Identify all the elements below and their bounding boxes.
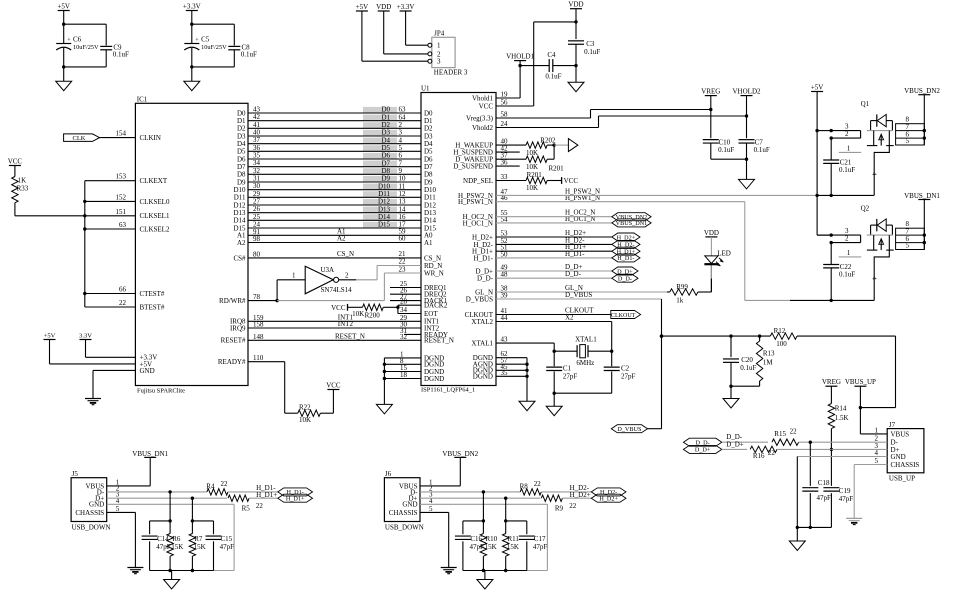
svg-text:22: 22 [790, 427, 798, 435]
svg-text:+5V: +5V [44, 333, 56, 340]
svg-text:C15: C15 [221, 535, 233, 543]
svg-text:CLKSEL0: CLKSEL0 [140, 198, 170, 206]
svg-text:10K: 10K [526, 149, 538, 157]
svg-text:47pF: 47pF [220, 543, 235, 551]
svg-text:R10: R10 [486, 535, 498, 543]
svg-text:0.1uF: 0.1uF [113, 51, 129, 59]
svg-text:XTAL2: XTAL2 [471, 318, 493, 326]
svg-text:XTAL1: XTAL1 [575, 335, 597, 343]
svg-text:DGND: DGND [424, 375, 444, 383]
svg-text:Vhold1: Vhold1 [472, 94, 494, 102]
svg-text:5: 5 [875, 457, 879, 465]
svg-text:152: 152 [116, 193, 127, 201]
svg-text:H_D1+: H_D1+ [256, 491, 277, 499]
svg-text:60: 60 [399, 235, 407, 243]
svg-text:X2: X2 [565, 314, 574, 322]
svg-text:1.5K: 1.5K [835, 414, 849, 422]
svg-text:19: 19 [501, 91, 509, 99]
svg-text:U1: U1 [421, 84, 430, 92]
svg-text:RD/WR#: RD/WR# [219, 297, 246, 305]
svg-text:CS_N: CS_N [337, 250, 354, 258]
svg-text:D_VBUS: D_VBUS [466, 295, 493, 303]
svg-text:GND: GND [140, 367, 155, 375]
svg-text:48: 48 [501, 271, 509, 279]
svg-text:VDD: VDD [568, 1, 583, 9]
svg-text:RESET_N: RESET_N [335, 332, 365, 340]
svg-text:98: 98 [253, 235, 261, 243]
svg-text:66: 66 [119, 286, 127, 294]
svg-text:1: 1 [847, 144, 851, 152]
svg-text:CLKEXT: CLKEXT [140, 177, 168, 185]
svg-text:VCC: VCC [326, 382, 341, 390]
svg-text:43: 43 [501, 336, 509, 344]
svg-text:22: 22 [768, 449, 776, 457]
svg-text:VDD: VDD [704, 229, 719, 237]
svg-text:D15: D15 [378, 221, 391, 229]
svg-text:D_VBUS: D_VBUS [617, 426, 642, 433]
svg-text:SN74LS14: SN74LS14 [321, 286, 353, 294]
svg-text:H_D2+: H_D2+ [570, 491, 591, 499]
svg-text:153: 153 [116, 173, 127, 181]
svg-text:C16: C16 [470, 535, 482, 543]
svg-text:R200: R200 [365, 311, 381, 319]
svg-text:80: 80 [253, 250, 261, 258]
svg-text:C18: C18 [818, 479, 830, 487]
svg-text:10uF/25V: 10uF/25V [73, 44, 99, 51]
svg-text:39: 39 [501, 292, 509, 300]
svg-text:Vreg(3.3): Vreg(3.3) [466, 114, 494, 122]
svg-text:+3.3V: +3.3V [183, 3, 201, 11]
svg-text:R202: R202 [540, 136, 556, 144]
svg-text:H_D1-: H_D1- [565, 250, 585, 258]
svg-text:3.3V: 3.3V [79, 333, 92, 340]
svg-text:Vhold2: Vhold2 [472, 124, 494, 132]
svg-text:C22: C22 [840, 263, 852, 271]
svg-text:BTEST#: BTEST# [140, 303, 165, 311]
svg-text:1K: 1K [18, 177, 27, 185]
svg-text:47pF: 47pF [839, 495, 854, 503]
svg-text:HEADER 3: HEADER 3 [434, 69, 468, 77]
svg-text:18: 18 [400, 371, 408, 379]
svg-text:DGND: DGND [473, 373, 493, 381]
svg-text:CHASSIS: CHASSIS [389, 509, 418, 517]
svg-text:D_D-: D_D- [477, 275, 494, 283]
svg-text:10K: 10K [299, 416, 311, 424]
svg-text:10K: 10K [526, 184, 538, 192]
svg-text:VHOLD1: VHOLD1 [506, 53, 534, 61]
svg-text:A1: A1 [424, 239, 433, 247]
svg-text:44: 44 [501, 314, 509, 322]
svg-text:R15: R15 [774, 430, 786, 438]
svg-text:5: 5 [906, 137, 910, 145]
svg-text:VCC: VCC [331, 304, 346, 312]
svg-text:CLK: CLK [73, 135, 86, 142]
svg-text:22: 22 [534, 480, 542, 488]
svg-text:Q1: Q1 [861, 100, 870, 108]
svg-text:27pF: 27pF [621, 372, 636, 380]
svg-text:34: 34 [400, 306, 408, 314]
svg-text:15K: 15K [507, 543, 519, 551]
svg-text:58: 58 [501, 111, 509, 119]
svg-text:A2: A2 [337, 235, 346, 243]
svg-text:0.1uF: 0.1uF [241, 51, 257, 59]
svg-text:R201: R201 [527, 171, 543, 179]
svg-text:22: 22 [221, 480, 229, 488]
svg-text:NDP_SEL: NDP_SEL [463, 177, 493, 185]
svg-text:H_D1-: H_D1- [474, 254, 494, 262]
svg-text:1: 1 [847, 249, 851, 257]
svg-text:78: 78 [253, 293, 261, 301]
svg-text:1: 1 [875, 426, 879, 434]
svg-text:24: 24 [501, 120, 509, 128]
svg-text:D_VBUS: D_VBUS [565, 291, 592, 299]
svg-text:33: 33 [501, 173, 509, 181]
svg-text:28: 28 [400, 298, 408, 306]
svg-text:C2: C2 [621, 364, 630, 372]
svg-text:0.1uF: 0.1uF [740, 364, 756, 372]
svg-text:CTEST#: CTEST# [140, 290, 165, 298]
svg-text:10K: 10K [526, 163, 538, 171]
svg-text:47pF: 47pF [533, 543, 548, 551]
svg-text:R9: R9 [555, 505, 564, 513]
svg-text:CLKIN: CLKIN [140, 134, 161, 142]
svg-text:0.1uF: 0.1uF [545, 73, 561, 81]
svg-text:C21: C21 [840, 158, 852, 166]
svg-text:47pF: 47pF [156, 543, 171, 551]
svg-text:C20: C20 [741, 356, 753, 364]
svg-text:WR_N: WR_N [424, 269, 444, 277]
svg-text:J5: J5 [72, 470, 79, 478]
svg-text:C5: C5 [201, 36, 210, 44]
svg-text:VBUS: VBUS [891, 430, 910, 438]
svg-text:+5V: +5V [811, 84, 824, 92]
svg-text:D_SUSPEND: D_SUSPEND [453, 163, 493, 171]
svg-text:Q2: Q2 [861, 205, 870, 213]
svg-text:ISP1161_LQFP64_1: ISP1161_LQFP64_1 [421, 387, 475, 394]
svg-text:148: 148 [253, 333, 264, 341]
svg-text:10uF/25V: 10uF/25V [201, 44, 227, 51]
svg-text:VCC: VCC [564, 177, 579, 185]
svg-text:22: 22 [119, 299, 127, 307]
svg-text:0.1uF: 0.1uF [754, 146, 770, 154]
svg-text:VBUS_DN1: VBUS_DN1 [904, 192, 940, 200]
svg-text:R16: R16 [753, 452, 765, 460]
svg-text:1: 1 [292, 272, 296, 280]
svg-text:USB_DOWN: USB_DOWN [385, 524, 424, 532]
svg-text:GND: GND [402, 501, 417, 509]
svg-text:R201: R201 [549, 165, 565, 173]
svg-text:JP4: JP4 [434, 29, 445, 37]
svg-text:22: 22 [256, 502, 264, 510]
svg-text:22: 22 [569, 502, 577, 510]
svg-text:C19: C19 [839, 487, 851, 495]
svg-text:+3.3V: +3.3V [397, 3, 415, 11]
svg-text:R4: R4 [206, 482, 215, 490]
svg-text:5: 5 [906, 242, 910, 250]
svg-text:C6: C6 [73, 36, 82, 44]
svg-text:4: 4 [875, 449, 879, 457]
svg-text:VBUS_DN1: VBUS_DN1 [616, 220, 648, 227]
svg-text:0.1uF: 0.1uF [718, 146, 734, 154]
svg-text:22: 22 [399, 258, 407, 266]
svg-text:C17: C17 [534, 535, 546, 543]
svg-text:32: 32 [400, 333, 408, 341]
svg-text:1M: 1M [763, 358, 774, 366]
svg-text:C14: C14 [157, 535, 169, 543]
svg-text:110: 110 [253, 354, 264, 362]
svg-text:LED: LED [717, 250, 731, 258]
svg-text:1k: 1k [676, 296, 684, 304]
svg-text:Fujitsu SPARClite: Fujitsu SPARClite [137, 387, 185, 394]
svg-text:GND: GND [891, 453, 906, 461]
svg-text:R5: R5 [242, 505, 251, 513]
svg-text:H_D1+: H_D1+ [286, 496, 305, 503]
svg-text:R22: R22 [299, 403, 311, 411]
svg-text:+: + [195, 38, 199, 44]
svg-text:H_D1-: H_D1- [617, 255, 634, 262]
svg-text:36: 36 [501, 159, 509, 167]
svg-text:C3: C3 [586, 40, 595, 48]
svg-text:+5V: +5V [57, 3, 70, 11]
svg-text:10K: 10K [352, 310, 364, 318]
svg-text:IC1: IC1 [137, 95, 148, 103]
svg-text:RESET_N: RESET_N [424, 337, 454, 345]
svg-text:VREG: VREG [822, 378, 841, 386]
svg-text:47pF: 47pF [470, 543, 485, 551]
svg-text:CHASSIS: CHASSIS [75, 509, 104, 517]
svg-text:J7: J7 [889, 421, 896, 429]
svg-text:+5V: +5V [356, 3, 369, 11]
svg-text:0.1uF: 0.1uF [839, 271, 855, 279]
svg-text:VCC: VCC [8, 158, 23, 166]
svg-text:R33: R33 [17, 185, 29, 193]
svg-text:RESET#: RESET# [221, 337, 246, 345]
svg-text:READY#: READY# [218, 358, 246, 366]
svg-text:CLKSEL2: CLKSEL2 [140, 225, 170, 233]
svg-text:R6: R6 [172, 535, 181, 543]
svg-text:100: 100 [776, 340, 787, 348]
svg-text:R14: R14 [835, 405, 847, 413]
svg-text:A2: A2 [237, 239, 246, 247]
svg-text:R11: R11 [508, 535, 520, 543]
svg-text:C4: C4 [547, 51, 556, 59]
svg-text:VDD: VDD [376, 3, 391, 11]
svg-text:15K: 15K [485, 543, 497, 551]
svg-text:C1: C1 [563, 364, 572, 372]
svg-text:R12: R12 [774, 327, 786, 335]
svg-text:0.1uF: 0.1uF [839, 166, 855, 174]
svg-text:CLKSEL1: CLKSEL1 [140, 212, 170, 220]
svg-text:GND: GND [89, 501, 104, 509]
svg-text:H_OC1_N: H_OC1_N [463, 219, 493, 227]
svg-text:CLKOUT: CLKOUT [611, 313, 636, 319]
svg-text:USB_UP: USB_UP [889, 475, 915, 483]
svg-text:15K: 15K [194, 543, 206, 551]
svg-text:USB_DOWN: USB_DOWN [72, 524, 111, 532]
svg-text:C10: C10 [719, 138, 731, 146]
svg-text:56: 56 [501, 99, 509, 107]
svg-text:5: 5 [429, 505, 433, 513]
svg-text:3: 3 [437, 58, 441, 66]
svg-text:R13: R13 [763, 349, 775, 357]
svg-text:R99: R99 [676, 283, 688, 291]
svg-text:151: 151 [116, 208, 127, 216]
svg-text:J6: J6 [385, 470, 392, 478]
svg-text:DACK2: DACK2 [424, 302, 448, 310]
svg-text:1: 1 [437, 42, 441, 50]
svg-text:154: 154 [116, 130, 127, 138]
svg-text:C7: C7 [755, 138, 764, 146]
svg-text:CS#: CS# [233, 254, 246, 262]
svg-text:6MHz: 6MHz [576, 359, 594, 367]
svg-text:23: 23 [399, 266, 407, 274]
svg-text:50: 50 [501, 250, 509, 258]
svg-text:0.1uF: 0.1uF [584, 48, 600, 56]
svg-text:D_D-: D_D- [618, 276, 632, 283]
svg-text:15K: 15K [171, 543, 183, 551]
svg-text:CHASSIS: CHASSIS [891, 461, 920, 469]
svg-text:H_D2+: H_D2+ [599, 496, 618, 503]
svg-text:VBUS_DN2: VBUS_DN2 [904, 87, 940, 95]
svg-text:D_D+: D_D+ [726, 441, 744, 449]
svg-text:27pF: 27pF [563, 372, 578, 380]
svg-text:H_PSW1_N: H_PSW1_N [458, 198, 493, 206]
svg-text:R7: R7 [194, 535, 203, 543]
svg-text:2: 2 [845, 130, 849, 138]
svg-text:5: 5 [116, 505, 120, 513]
svg-text:D_D+: D_D+ [695, 447, 711, 454]
svg-text:2: 2 [845, 235, 849, 243]
svg-text:VREG: VREG [701, 88, 720, 96]
svg-text:XTAL1: XTAL1 [471, 340, 493, 348]
svg-text:VBUS_UP: VBUS_UP [845, 378, 876, 386]
svg-text:47pF: 47pF [817, 494, 832, 502]
svg-text:158: 158 [253, 321, 264, 329]
svg-text:IRQ9: IRQ9 [230, 324, 246, 332]
svg-text:R8: R8 [520, 482, 529, 490]
svg-text:63: 63 [119, 221, 127, 229]
svg-text:2: 2 [345, 272, 349, 280]
svg-text:VCC: VCC [479, 102, 494, 110]
svg-text:INT2: INT2 [338, 320, 354, 328]
svg-text:VHOLD2: VHOLD2 [733, 88, 761, 96]
svg-text:U3A: U3A [321, 266, 335, 274]
svg-text:35: 35 [501, 369, 509, 377]
svg-text:EOT: EOT [424, 310, 438, 318]
svg-text:D_D-: D_D- [565, 270, 582, 278]
